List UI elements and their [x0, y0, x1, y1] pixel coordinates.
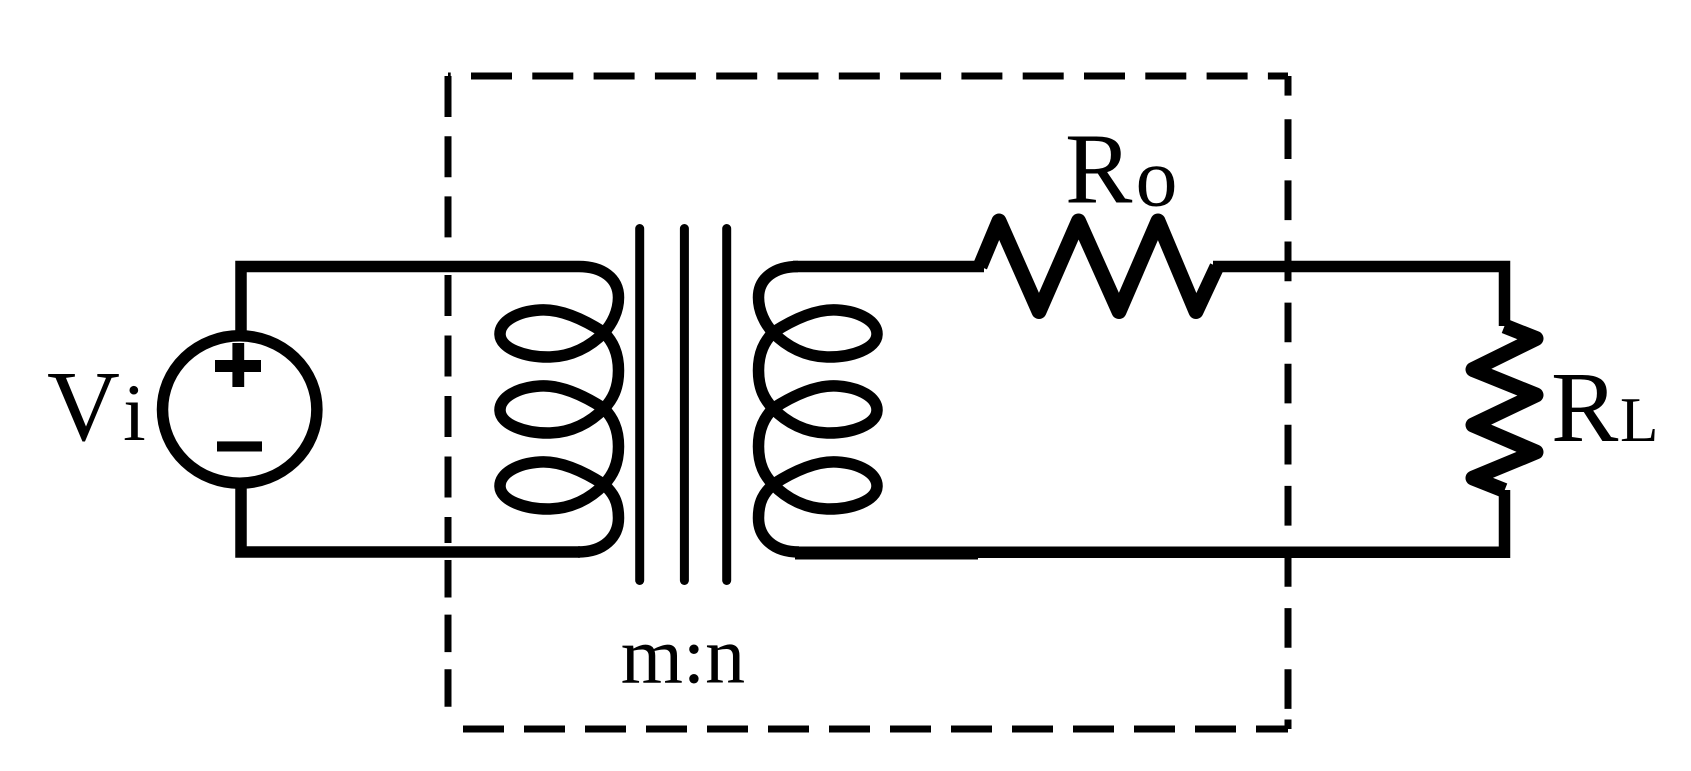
transformer core lines — [640, 229, 727, 581]
wire RL bottom to secondary bottom — [974, 490, 1505, 552]
wire bottom-left (transformer primary to source) — [241, 486, 580, 552]
dashed box left edge lower segment — [445, 560, 452, 723]
svg-text:i: i — [123, 367, 146, 458]
wire top-left (source to transformer primary) — [241, 267, 579, 332]
svg-text:m:n: m:n — [621, 613, 745, 701]
dashed box left edge upper segment — [445, 76, 452, 254]
transformer primary coil — [500, 267, 619, 553]
wire Ro to RL top corner — [1213, 267, 1505, 327]
svg-text:L: L — [1620, 385, 1658, 455]
dashed box left edge middle segment — [445, 275, 452, 543]
svg-text:R: R — [1065, 113, 1133, 225]
svg-text:V: V — [47, 350, 120, 462]
wire secondary bottom — [795, 547, 978, 560]
dashed box top-right corner stub — [1285, 76, 1292, 96]
svg-text:o: o — [1136, 132, 1178, 225]
voltage source Vi circle — [163, 336, 317, 483]
dashed box bottom edge — [448, 726, 1288, 733]
minus sign — [217, 441, 262, 451]
dashed box right edge — [1285, 119, 1292, 729]
resistor Ro zigzag — [980, 221, 1217, 312]
dashed box bottom-right corner stub — [1285, 720, 1292, 730]
dashed box (two-port network boundary) — [448, 76, 1288, 729]
wire secondary top to resistor Ro — [793, 261, 984, 273]
svg-text:R: R — [1551, 351, 1619, 463]
plus sign — [215, 343, 261, 387]
resistor RL zigzag — [1473, 326, 1536, 491]
dashed box top edge — [448, 73, 1288, 80]
transformer secondary coil (mirror of primary) — [759, 267, 878, 553]
